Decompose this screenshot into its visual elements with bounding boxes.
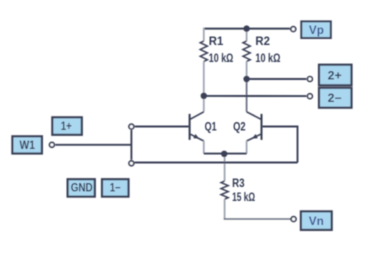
label R2 value bbox=[255, 36, 280, 65]
label box GND bbox=[68, 179, 95, 196]
wire collector Q1 to 2- tap bbox=[204, 95, 307, 97]
collector diagonal bbox=[247, 112, 261, 119]
terminal 1+ open circle bbox=[129, 124, 134, 129]
svg-text:Q2: Q2 bbox=[233, 122, 246, 134]
emitter arrow bbox=[193, 134, 199, 139]
emitter lead bbox=[246, 141, 248, 154]
transistor Q2 bbox=[247, 112, 262, 154]
svg-text:15 kΩ: 15 kΩ bbox=[232, 192, 255, 204]
wire Q1 base bbox=[135, 126, 189, 128]
terminal 1- open circle bbox=[129, 161, 134, 166]
wire bottom return rail bbox=[135, 162, 298, 164]
svg-text:Vp: Vp bbox=[309, 25, 324, 37]
wire W1 feed bbox=[55, 144, 131, 146]
svg-text:2+: 2+ bbox=[328, 70, 342, 82]
svg-text:10 kΩ: 10 kΩ bbox=[255, 53, 280, 65]
svg-text:R1: R1 bbox=[209, 36, 224, 48]
terminal W1 open circle bbox=[49, 142, 54, 147]
resistor R2 bbox=[243, 29, 250, 112]
resistor R1 bbox=[200, 28, 207, 96]
collector diagonal bbox=[190, 112, 204, 119]
emitter diagonal bbox=[247, 134, 261, 141]
collector lead bbox=[203, 96, 205, 112]
emitter lead bbox=[203, 141, 205, 154]
svg-text:10 kΩ: 10 kΩ bbox=[209, 53, 234, 65]
label box 1+ bbox=[52, 117, 82, 135]
base bar bbox=[260, 114, 262, 140]
transistor Q1 bbox=[190, 96, 204, 154]
wire R3 to Vn bbox=[224, 218, 291, 220]
svg-text:Q1: Q1 bbox=[205, 122, 217, 134]
svg-text:GND: GND bbox=[71, 182, 93, 194]
emitter diagonal bbox=[190, 134, 204, 141]
node 2- junction bbox=[201, 93, 207, 99]
svg-text:W1: W1 bbox=[19, 140, 35, 152]
node 2+ junction bbox=[243, 76, 249, 82]
base bar bbox=[189, 114, 191, 140]
node emitter junction bbox=[221, 151, 227, 157]
terminal 2+ open circle bbox=[307, 77, 312, 82]
terminal 2- open circle bbox=[307, 94, 312, 99]
wire top supply rail bbox=[204, 28, 290, 30]
svg-text:2−: 2− bbox=[328, 93, 342, 105]
label R1 value bbox=[209, 36, 234, 65]
wire collector Q2 to 2+ tap bbox=[247, 78, 307, 80]
terminal Vp open circle bbox=[291, 27, 296, 32]
node top rail junction at R2 bbox=[243, 25, 249, 31]
svg-text:R2: R2 bbox=[255, 36, 270, 48]
label box Vn bbox=[301, 211, 332, 230]
wire left vertical tie bbox=[130, 130, 132, 160]
label box W1 bbox=[12, 136, 42, 153]
label box Vp bbox=[301, 21, 331, 38]
label box 2+ bbox=[319, 65, 352, 86]
label box 1- bbox=[102, 179, 129, 196]
svg-text:1−: 1− bbox=[110, 182, 121, 194]
label R3 value bbox=[232, 178, 255, 204]
wire emitter rail bbox=[204, 153, 247, 155]
svg-text:Vn: Vn bbox=[309, 216, 324, 228]
terminal Vn open circle bbox=[291, 217, 296, 222]
emitter arrow bbox=[252, 134, 258, 139]
svg-text:R3: R3 bbox=[232, 178, 245, 190]
resistor R3 bbox=[221, 154, 228, 219]
svg-text:1+: 1+ bbox=[61, 121, 72, 133]
wire Q2 base loop right vertical bbox=[263, 127, 298, 163]
label box 2- bbox=[319, 88, 352, 108]
